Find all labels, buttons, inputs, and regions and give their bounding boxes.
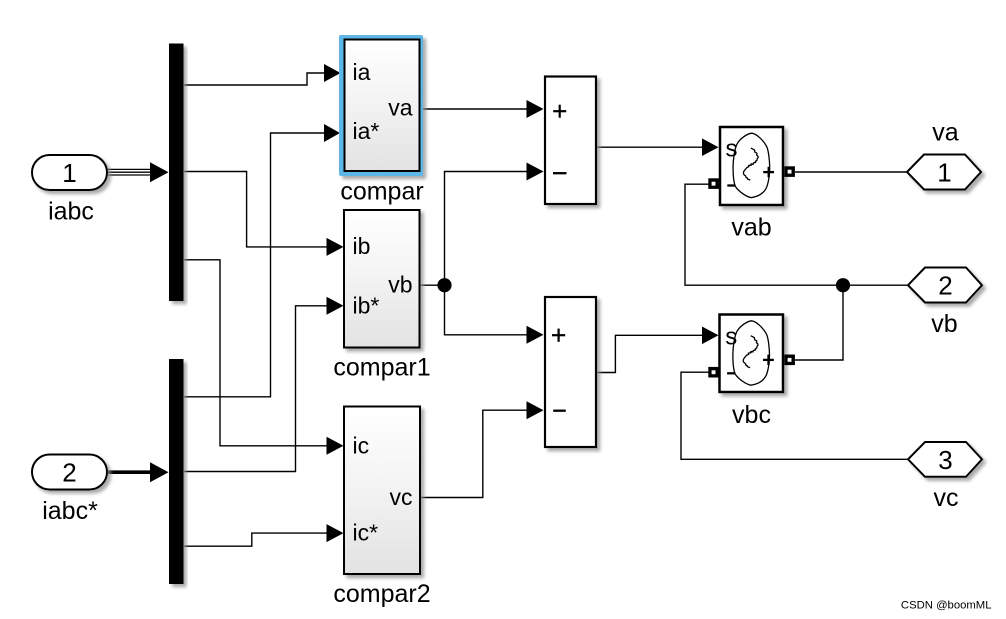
vbc icon squiggle [743, 336, 758, 368]
arrowhead at Sum1 - [527, 163, 544, 181]
arrowhead at Sum2 - [527, 401, 544, 419]
subsystem compar (selected) [339, 35, 423, 176]
wire: junction vb up to Sum1 - [445, 172, 529, 286]
vbc - terminal port [708, 367, 719, 378]
svg-text:2: 2 [938, 271, 952, 301]
svg-text:CSDN @boomML: CSDN @boomML [901, 600, 992, 612]
wire: junction vb down to Sum2 + [445, 285, 529, 335]
vab icon plus mark [763, 167, 774, 178]
svg-text:s: s [725, 323, 737, 350]
wire: vbc - terminal to outport 3 [681, 372, 908, 459]
Sum1 block [545, 77, 596, 205]
wire: junction down to vbc + terminal [795, 285, 843, 360]
vbc icon minus mark [727, 372, 735, 374]
controlled voltage source vbc [720, 315, 784, 393]
Demux2 bar [169, 359, 184, 584]
vab + terminal port [784, 166, 795, 177]
svg-text:3: 3 [938, 445, 952, 475]
svg-text:ia: ia [353, 59, 371, 85]
wire: vab - terminal loop to outport 2 [685, 184, 908, 285]
svg-text:ib*: ib* [353, 293, 380, 319]
wire: Sum1 out to vab s [596, 146, 703, 148]
svg-text:va: va [388, 95, 413, 121]
vab - terminal port [708, 178, 719, 189]
junction node at vb net [836, 278, 850, 292]
wire: vab + terminal to outport 1 [795, 171, 907, 173]
wire: compar1 vb to junction [420, 284, 445, 286]
Sum1 minus sign [553, 172, 567, 174]
Sum2 minus sign [553, 410, 566, 412]
svg-text:vb: vb [388, 272, 412, 298]
svg-text:ic: ic [353, 433, 370, 459]
arrowhead into Demux1 [150, 162, 169, 182]
vbc + terminal port [784, 355, 795, 366]
svg-text:1: 1 [937, 158, 951, 188]
svg-text:1: 1 [62, 158, 76, 188]
arrowhead at compar ia* [324, 124, 340, 142]
svg-text:vc: vc [390, 484, 413, 510]
vab icon ellipse [733, 133, 770, 197]
controlled voltage source vab [720, 127, 783, 205]
svg-text:iabc*: iabc* [42, 497, 98, 525]
svg-text:ib: ib [353, 233, 371, 259]
wire: Sum2 out to vbc s [596, 335, 703, 372]
arrowhead at vab s [702, 138, 719, 156]
wire: Demux1 out1 to compar ia [184, 73, 326, 85]
Sum2 plus sign [552, 329, 565, 342]
wire: compar va to Sum1 + [423, 108, 529, 110]
Sum1 plus sign [553, 105, 566, 118]
svg-text:vb: vb [931, 310, 957, 338]
vbc icon plus mark [763, 355, 774, 366]
svg-text:2: 2 [62, 458, 76, 488]
arrowhead at compar2 ic [327, 437, 344, 455]
svg-text:ic*: ic* [353, 520, 379, 546]
wire: Demux2 out3 to compar2 ic* [184, 533, 328, 546]
wire: compar2 vc to Sum2 - [420, 410, 529, 497]
outport 3 hexagon [908, 442, 982, 477]
vab icon minus mark [727, 184, 735, 186]
wire: inport 1 to Demux1 (triple vector line) [107, 169, 151, 175]
inport 2 [32, 455, 107, 490]
outport 2 hexagon [908, 268, 982, 303]
Demux1 bar [169, 44, 184, 302]
arrowhead at Sum2 + [527, 326, 544, 344]
svg-text:vbc: vbc [732, 401, 771, 429]
svg-text:compar: compar [340, 178, 423, 206]
arrowhead at Sum1 + [527, 100, 544, 118]
arrowhead into Demux2 [150, 462, 169, 482]
subsystem compar2 [344, 407, 420, 575]
wire: Demux2 out2 to compar1 ib* [184, 306, 328, 472]
subsystem compar1 [344, 210, 420, 348]
svg-text:s: s [726, 136, 738, 163]
arrowhead at vbc s [702, 327, 719, 345]
vbc icon ellipse [733, 321, 770, 385]
wire: Demux1 out2 to compar1 ib [184, 172, 328, 247]
Sum2 block [545, 297, 596, 447]
svg-text:vc: vc [934, 484, 959, 512]
arrowhead at compar1 ib* [327, 297, 344, 315]
arrowhead at compar ia [324, 64, 341, 82]
wire: inport 2 to Demux2 (thick) [107, 470, 151, 474]
svg-text:compar2: compar2 [333, 580, 430, 608]
svg-text:ia*: ia* [353, 118, 380, 144]
svg-text:vab: vab [731, 214, 771, 242]
inport 1 [32, 155, 107, 190]
arrowhead at compar2 ic* [327, 524, 344, 542]
junction node vb [437, 278, 451, 292]
arrowhead at compar1 ib [327, 238, 344, 256]
svg-text:iabc: iabc [48, 198, 94, 226]
svg-text:compar1: compar1 [333, 354, 430, 382]
wire: Demux2 out1 to compar ia* [184, 133, 324, 397]
outport 1 hexagon [907, 155, 981, 190]
wire: Demux1 out3 to compar2 ic [184, 260, 328, 446]
svg-text:va: va [932, 119, 959, 147]
vab icon squiggle [743, 148, 758, 180]
